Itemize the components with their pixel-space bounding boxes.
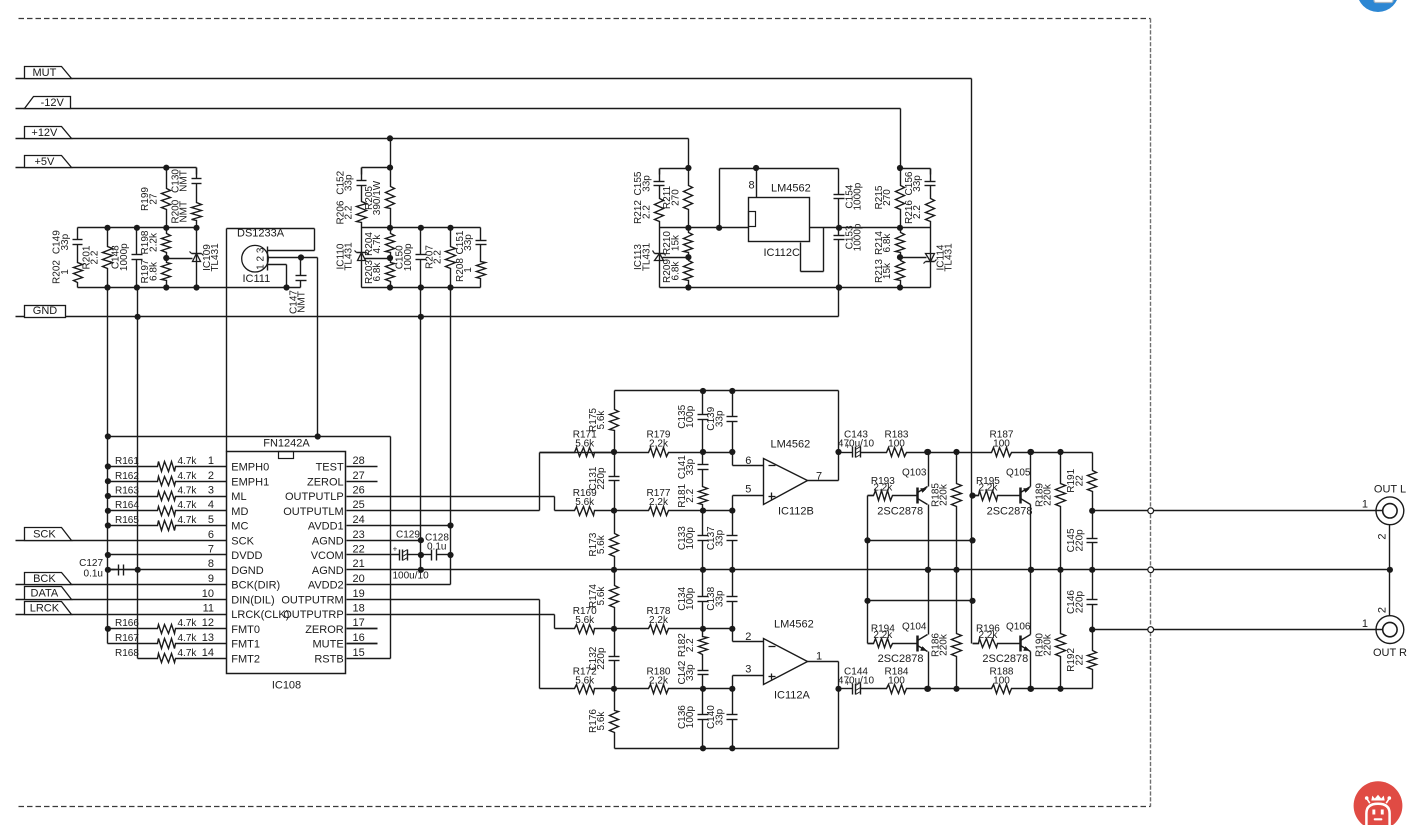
svg-text:R185: R185 (930, 483, 941, 507)
svg-text:2.2k: 2.2k (649, 675, 669, 686)
svg-text:IC112A: IC112A (774, 690, 811, 702)
svg-text:R165: R165 (115, 515, 139, 526)
svg-text:LRCK(CLK): LRCK(CLK) (231, 609, 289, 621)
svg-text:13: 13 (202, 632, 214, 644)
svg-text:EMPH1: EMPH1 (231, 476, 269, 488)
svg-text:C149: C149 (52, 230, 63, 254)
svg-text:C140: C140 (706, 705, 717, 729)
svg-text:1: 1 (1362, 499, 1368, 511)
svg-text:20: 20 (353, 573, 365, 585)
svg-text:6: 6 (208, 529, 214, 541)
svg-text:R191: R191 (1066, 468, 1077, 492)
svg-text:C155: C155 (633, 171, 644, 195)
svg-text:2SC2878: 2SC2878 (987, 505, 1033, 517)
svg-text:OUT R: OUT R (1373, 647, 1407, 659)
svg-text:AVDD2: AVDD2 (308, 580, 344, 592)
svg-text:28: 28 (353, 455, 365, 467)
svg-text:1 2 3: 1 2 3 (256, 247, 267, 270)
svg-text:MD: MD (231, 506, 248, 518)
svg-text:R202: R202 (52, 260, 63, 284)
svg-text:C136: C136 (677, 705, 688, 729)
svg-text:2.2k: 2.2k (649, 439, 669, 450)
svg-text:14: 14 (202, 647, 214, 659)
svg-text:23: 23 (353, 529, 365, 541)
svg-text:LRCK: LRCK (30, 602, 60, 614)
svg-text:R166: R166 (115, 618, 139, 629)
svg-text:LM4562: LM4562 (771, 183, 811, 195)
svg-text:22: 22 (353, 544, 365, 556)
svg-text:R161: R161 (115, 456, 139, 467)
svg-text:IC113: IC113 (633, 244, 644, 270)
svg-text:Q105: Q105 (1006, 468, 1031, 479)
svg-text:IC112B: IC112B (778, 506, 814, 518)
svg-text:R198: R198 (140, 230, 151, 254)
svg-text:ML: ML (231, 491, 246, 503)
svg-text:100: 100 (888, 675, 905, 686)
svg-text:R208: R208 (455, 258, 466, 282)
svg-text:C148: C148 (111, 245, 122, 269)
svg-text:R181: R181 (677, 483, 688, 507)
svg-text:R182: R182 (677, 633, 688, 657)
svg-text:4.7k: 4.7k (178, 456, 198, 467)
svg-text:TEST: TEST (316, 462, 344, 474)
svg-text:R174: R174 (588, 584, 599, 608)
svg-text:8: 8 (748, 180, 754, 192)
svg-text:IC111: IC111 (243, 273, 271, 285)
svg-text:19: 19 (353, 588, 365, 600)
svg-text:R207: R207 (424, 245, 435, 269)
svg-text:2.2k: 2.2k (649, 497, 669, 508)
svg-text:R197: R197 (140, 259, 151, 283)
svg-text:C131: C131 (588, 466, 599, 490)
svg-text:2: 2 (1377, 607, 1389, 613)
svg-text:DGND: DGND (231, 565, 263, 577)
svg-text:2: 2 (1377, 533, 1389, 539)
svg-text:R215: R215 (874, 185, 885, 209)
svg-text:C129: C129 (396, 530, 420, 541)
svg-text:-12V: -12V (41, 97, 65, 109)
svg-text:+5V: +5V (34, 156, 55, 168)
svg-text:2: 2 (745, 631, 751, 643)
svg-text:R162: R162 (115, 471, 139, 482)
svg-text:2.2k: 2.2k (978, 483, 998, 494)
svg-text:R203: R203 (364, 260, 375, 284)
svg-text:C156: C156 (904, 171, 915, 195)
svg-text:R167: R167 (115, 633, 139, 644)
svg-text:Q104: Q104 (902, 621, 927, 632)
svg-text:4.7k: 4.7k (178, 486, 198, 497)
svg-text:OUTPUTRP: OUTPUTRP (283, 609, 344, 621)
svg-text:4: 4 (208, 499, 214, 511)
svg-text:C150: C150 (395, 245, 406, 269)
svg-text:C127: C127 (79, 558, 103, 569)
svg-text:18: 18 (353, 603, 365, 615)
svg-text:C134: C134 (677, 586, 688, 610)
svg-text:TL431: TL431 (943, 243, 954, 272)
svg-text:100: 100 (888, 439, 905, 450)
svg-text:SCK: SCK (33, 529, 56, 541)
svg-text:DVDD: DVDD (231, 550, 262, 562)
svg-text:4.7k: 4.7k (178, 500, 198, 511)
svg-text:100: 100 (993, 675, 1010, 686)
svg-text:DIN(DIL): DIN(DIL) (231, 595, 274, 607)
svg-text:C146: C146 (1066, 590, 1077, 614)
svg-text:AVDD1: AVDD1 (308, 521, 344, 533)
svg-text:OUTPUTRM: OUTPUTRM (281, 595, 343, 607)
svg-text:R175: R175 (588, 408, 599, 432)
svg-text:3: 3 (745, 663, 751, 675)
svg-text:1: 1 (208, 455, 214, 467)
svg-text:R186: R186 (930, 633, 941, 657)
svg-text:FN1242A: FN1242A (263, 438, 310, 450)
svg-text:AGND: AGND (312, 565, 344, 577)
svg-text:DS1233A: DS1233A (237, 228, 285, 240)
svg-text:C133: C133 (677, 526, 688, 550)
svg-text:DATA: DATA (31, 588, 59, 600)
svg-text:12: 12 (202, 617, 214, 629)
svg-text:R168: R168 (115, 648, 139, 659)
svg-text:OUT L: OUT L (1374, 484, 1406, 496)
svg-text:R192: R192 (1066, 648, 1077, 672)
svg-text:5.6k: 5.6k (575, 615, 595, 626)
svg-text:6: 6 (745, 455, 751, 467)
svg-text:Q103: Q103 (902, 468, 927, 479)
svg-text:R176: R176 (588, 709, 599, 733)
svg-text:16: 16 (353, 632, 365, 644)
svg-text:MUTE: MUTE (313, 639, 344, 651)
svg-text:4.7k: 4.7k (178, 633, 198, 644)
svg-text:BCK(DIR): BCK(DIR) (231, 580, 280, 592)
svg-text:GND: GND (33, 305, 58, 317)
svg-text:C130: C130 (170, 169, 181, 193)
svg-text:R213: R213 (874, 259, 885, 283)
svg-text:NMT: NMT (297, 291, 308, 313)
svg-text:R190: R190 (1034, 633, 1045, 657)
svg-text:2.2k: 2.2k (978, 630, 998, 641)
svg-text:100u/10: 100u/10 (393, 571, 430, 582)
svg-text:FMT2: FMT2 (231, 654, 260, 666)
svg-text:R206: R206 (335, 200, 346, 224)
svg-text:IC112C: IC112C (764, 247, 801, 259)
svg-text:1000p: 1000p (852, 223, 863, 251)
svg-text:MC: MC (231, 521, 248, 533)
svg-text:C145: C145 (1066, 528, 1077, 552)
svg-text:C151: C151 (455, 230, 466, 254)
svg-text:10: 10 (202, 588, 214, 600)
svg-text:0.1u: 0.1u (427, 542, 446, 553)
svg-text:5: 5 (745, 483, 751, 495)
svg-text:21: 21 (353, 558, 365, 570)
svg-text:C137: C137 (706, 526, 717, 550)
svg-text:IC108: IC108 (272, 680, 301, 692)
svg-text:R164: R164 (115, 500, 139, 511)
svg-text:1: 1 (816, 651, 822, 663)
svg-text:BCK: BCK (33, 573, 56, 585)
svg-text:24: 24 (353, 514, 365, 526)
svg-text:R189: R189 (1034, 483, 1045, 507)
svg-text:Q106: Q106 (1006, 621, 1031, 632)
svg-text:4.7k: 4.7k (178, 618, 198, 629)
svg-text:R200: R200 (170, 199, 181, 223)
svg-text:MUT: MUT (32, 67, 56, 79)
svg-text:RSTB: RSTB (314, 654, 343, 666)
svg-text:C142: C142 (677, 660, 688, 684)
svg-text:LM4562: LM4562 (771, 439, 811, 451)
svg-text:15: 15 (353, 647, 365, 659)
svg-text:470u/10: 470u/10 (838, 439, 875, 450)
svg-text:2.2k: 2.2k (873, 483, 893, 494)
svg-text:OUTPUTLM: OUTPUTLM (283, 506, 344, 518)
svg-text:2SC2878: 2SC2878 (877, 505, 923, 517)
svg-text:11: 11 (203, 603, 214, 615)
svg-text:1000p: 1000p (852, 182, 863, 210)
svg-text:2.2k: 2.2k (873, 630, 893, 641)
svg-text:27: 27 (353, 470, 365, 482)
svg-text:R212: R212 (633, 200, 644, 224)
svg-text:C138: C138 (706, 586, 717, 610)
svg-text:OUTPUTLP: OUTPUTLP (285, 491, 344, 503)
svg-text:4.7k: 4.7k (178, 515, 198, 526)
svg-text:R214: R214 (874, 231, 885, 255)
svg-text:5.6k: 5.6k (575, 497, 595, 508)
svg-text:26: 26 (353, 485, 365, 497)
svg-text:C135: C135 (677, 404, 688, 428)
svg-text:+12V: +12V (31, 127, 58, 139)
svg-text:2: 2 (208, 470, 214, 482)
svg-text:ZEROR: ZEROR (305, 624, 344, 636)
svg-text:2SC2878: 2SC2878 (982, 653, 1028, 665)
svg-text:17: 17 (353, 617, 365, 629)
svg-text:R163: R163 (115, 486, 139, 497)
svg-text:IC110: IC110 (335, 243, 346, 269)
svg-text:LM4562: LM4562 (774, 619, 814, 631)
svg-text:C152: C152 (335, 170, 346, 194)
svg-text:5.6k: 5.6k (575, 675, 595, 686)
svg-text:R211: R211 (662, 185, 673, 209)
svg-text:C141: C141 (677, 455, 688, 479)
svg-text:R204: R204 (364, 232, 375, 256)
svg-text:R209: R209 (662, 259, 673, 283)
svg-text:AGND: AGND (312, 536, 344, 548)
svg-text:8: 8 (208, 558, 214, 570)
svg-text:4.7k: 4.7k (178, 648, 198, 659)
svg-text:470u/10: 470u/10 (838, 675, 875, 686)
svg-text:5: 5 (208, 514, 214, 526)
svg-text:1: 1 (1362, 618, 1368, 630)
svg-text:9: 9 (208, 573, 214, 585)
svg-text:FMT1: FMT1 (231, 639, 260, 651)
svg-text:2SC2878: 2SC2878 (878, 653, 924, 665)
svg-text:FMT0: FMT0 (231, 624, 260, 636)
svg-text:7: 7 (208, 544, 214, 556)
svg-text:R205: R205 (364, 186, 375, 210)
svg-text:+: + (393, 545, 398, 554)
svg-text:25: 25 (353, 499, 365, 511)
svg-text:R173: R173 (588, 532, 599, 556)
svg-text:0.1u: 0.1u (84, 569, 103, 580)
svg-text:100: 100 (993, 439, 1010, 450)
svg-text:R201: R201 (81, 245, 92, 269)
svg-text:VCOM: VCOM (311, 550, 344, 562)
svg-text:C139: C139 (706, 406, 717, 430)
svg-text:R199: R199 (140, 187, 151, 211)
svg-text:TL431: TL431 (210, 243, 221, 272)
svg-text:ZEROL: ZEROL (307, 476, 344, 488)
svg-text:EMPH0: EMPH0 (231, 462, 269, 474)
svg-text:5.6k: 5.6k (575, 439, 595, 450)
svg-text:4.7k: 4.7k (178, 471, 198, 482)
svg-text:SCK: SCK (231, 536, 254, 548)
svg-text:3: 3 (208, 485, 214, 497)
svg-text:2.2k: 2.2k (649, 615, 669, 626)
svg-text:R210: R210 (662, 231, 673, 255)
